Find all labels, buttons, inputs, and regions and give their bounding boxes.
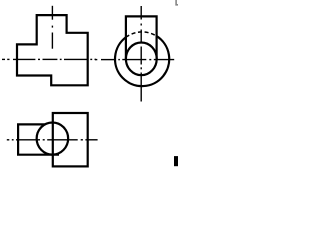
side view inner circle (bore) <box>126 43 157 76</box>
black bar bottom-right <box>174 156 178 166</box>
gray L mark top-right corner <box>176 0 178 5</box>
front view horizontal centerline <box>2 58 96 60</box>
top view left rectangle (partial: left edge, top edge, bottom edge) <box>18 124 59 154</box>
top view circle <box>37 123 69 155</box>
side view horizontal centerline <box>95 59 174 61</box>
side view outer circle solid arc <box>115 36 169 86</box>
front view outline (stepped block) <box>17 15 88 85</box>
front view vertical centerline <box>51 6 53 49</box>
side view tab (rectangle on top) <box>126 16 157 60</box>
side view outer circle hidden top arc (dashed) <box>126 32 157 37</box>
top view horizontal centerline <box>7 139 98 141</box>
side view vertical centerline <box>140 6 142 102</box>
top view right rectangle <box>53 113 88 166</box>
